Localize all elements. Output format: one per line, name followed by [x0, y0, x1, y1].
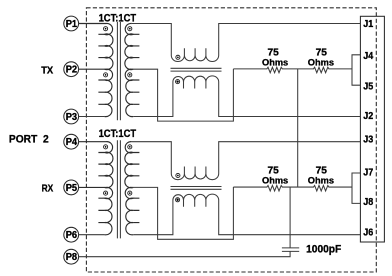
transformer T1 primary coil A stubs [98, 34, 104, 57]
transformer T2 secondary coil A stubs [133, 153, 139, 176]
pin circle P4 [64, 134, 79, 149]
transformer T2 primary coil B [79, 187, 113, 234]
polarity dot primary coil B (section 2) [104, 191, 108, 195]
wire P3 to transformer T1 primary bottom [79, 116, 105, 118]
transformer T2 primary coil A stubs [98, 153, 104, 176]
polarity dot primary coil A (section 1) [104, 27, 108, 31]
transformer T2 primary coil A [79, 142, 113, 188]
svg-text:J3: J3 [363, 135, 373, 146]
wire T secondary bottom + choke L1 winding B + wire to J2 [133, 76, 360, 117]
svg-text:PORT 2: PORT 2 [9, 133, 49, 145]
transformer T1 secondary coil A stubs [133, 34, 139, 57]
node vertical bottom mid node down to capacitor [289, 187, 291, 248]
transformer T2 core [117, 140, 120, 238]
svg-text:1CT:1CT: 1CT:1CT [99, 12, 137, 24]
wire T secondary top + choke L1 winding A + wire to J1 [132, 24, 361, 62]
wire P6 to transformer T2 primary bottom [79, 234, 105, 236]
svg-text:TX: TX [41, 65, 53, 77]
connector J box [360, 16, 384, 242]
pin circle P1 [64, 16, 79, 31]
capacitor 1000pF plates [282, 248, 299, 252]
svg-text:J4: J4 [363, 51, 373, 62]
svg-text:J7: J7 [363, 168, 373, 179]
pin circle P5 [64, 180, 79, 195]
transformer T1 secondary coil A [125, 23, 133, 69]
transformer T1 primary coil B stubs [98, 80, 104, 104]
wire capacitor bottom to P8 [79, 251, 290, 256]
transformer T2 primary coil B stubs [98, 198, 104, 222]
bracket J4 J5 [352, 55, 360, 85]
svg-text:1CT:1CT: 1CT:1CT [99, 128, 137, 140]
module dashed border [86, 8, 376, 272]
pin circle P6 [64, 227, 79, 242]
polarity dot choke winding B solid (section 2) [176, 198, 180, 202]
pin circle P8 [64, 249, 79, 264]
polarity dot primary coil B (section 1) [104, 73, 108, 77]
svg-text:P4: P4 [66, 137, 78, 148]
pin circle P3 [64, 109, 79, 124]
svg-text:P5: P5 [66, 183, 78, 194]
svg-text:RX: RX [42, 183, 54, 195]
svg-text:P3: P3 [66, 112, 78, 123]
polarity dot secondary coil B (section 2) [128, 191, 132, 195]
transformer T1 primary coil B [79, 69, 113, 116]
svg-text:Ohms: Ohms [308, 56, 334, 67]
svg-text:Ohms: Ohms [262, 175, 288, 186]
svg-text:P1: P1 [66, 19, 78, 30]
bracket J7 J8 [352, 173, 360, 203]
svg-text:P2: P2 [66, 65, 78, 76]
svg-text:J6: J6 [363, 227, 373, 238]
wire secondary center tap down and across [132, 187, 234, 239]
wire T secondary bottom + choke L2 winding B + wire to J6 [133, 194, 360, 235]
polarity dot secondary coil A (section 1) [128, 27, 132, 31]
wire secondary center tap down and across [132, 69, 234, 121]
pin circle P2 [64, 62, 79, 77]
transformer T2 secondary coil B [125, 187, 133, 234]
polarity dot primary coil A (section 2) [104, 145, 108, 149]
node vertical top mid node down to bottom resistor rail [297, 69, 299, 187]
transformer T1 secondary coil B stubs [133, 80, 139, 104]
polarity dot choke winding A (section 1) [176, 55, 180, 59]
transformer T1 core [117, 22, 120, 120]
svg-text:J2: J2 [363, 111, 373, 122]
choke L2 core [171, 187, 222, 190]
transformer T1 primary coil A [79, 23, 113, 69]
svg-text:Ohms: Ohms [308, 175, 334, 186]
polarity dot secondary coil A (section 2) [128, 145, 132, 149]
transformer T1 secondary coil B [125, 69, 133, 116]
polarity dot choke winding B solid (section 1) [176, 80, 180, 84]
svg-text:1000pF: 1000pF [306, 243, 342, 255]
polarity dot secondary coil B (section 1) [128, 73, 132, 77]
polarity dot choke winding A (section 2) [176, 173, 180, 177]
resistor rail: two 75 Ohm resistors to J bracket [233, 185, 352, 191]
svg-text:P8: P8 [66, 252, 78, 263]
svg-text:J8: J8 [363, 197, 373, 208]
svg-text:J1: J1 [363, 19, 373, 30]
svg-text:P6: P6 [66, 230, 78, 241]
transformer T2 secondary coil A [125, 142, 133, 188]
transformer T2 secondary coil B stubs [133, 198, 139, 222]
svg-text:Ohms: Ohms [262, 56, 288, 67]
wire T secondary top + choke L2 winding A + wire to J3 [132, 142, 361, 180]
choke L1 core [171, 68, 222, 71]
svg-text:J5: J5 [363, 81, 373, 92]
resistor rail: two 75 Ohm resistors to J bracket [233, 67, 352, 73]
